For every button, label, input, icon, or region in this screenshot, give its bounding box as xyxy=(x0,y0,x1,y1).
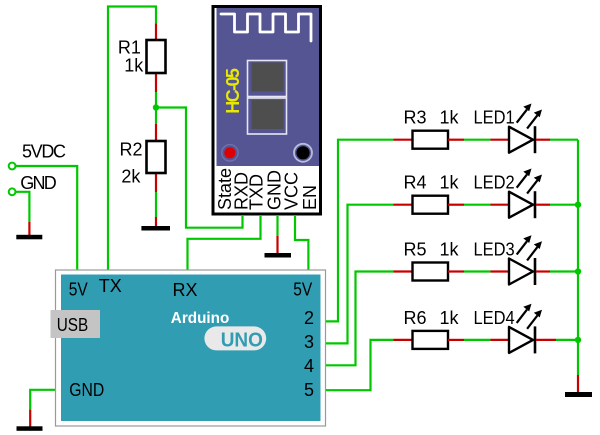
svg-text:LED2: LED2 xyxy=(474,173,515,193)
diode LED1 xyxy=(509,104,542,154)
wire HC-05 VCC to Arduino 5V right xyxy=(295,216,308,270)
ground symbol left input xyxy=(16,235,42,240)
wire green between R1 and R2 xyxy=(155,92,157,124)
wire 5VDC input to Arduino 5V left xyxy=(16,166,77,270)
svg-text:TXD: TXD xyxy=(247,174,267,210)
wire red lead LED4 anode xyxy=(491,339,510,341)
badge UNO pill xyxy=(204,326,266,350)
svg-text:3: 3 xyxy=(304,332,314,352)
svg-text:2k: 2k xyxy=(121,167,141,187)
wire red lead R3 left xyxy=(394,139,414,141)
ground symbol bottom right xyxy=(565,392,592,397)
wire red lead arduino ground xyxy=(29,410,31,427)
wire red lead LED3 anode xyxy=(491,270,510,272)
svg-text:LED1: LED1 xyxy=(474,108,515,128)
wire red lead R5 left xyxy=(394,270,414,272)
module HC-05 pcb xyxy=(217,8,320,166)
wire red lead LED1 cathode xyxy=(536,139,550,141)
wire pin5 to LED4 row xyxy=(326,340,394,390)
wire red lead R2 top xyxy=(155,124,157,141)
antenna trace xyxy=(221,14,311,41)
svg-text:1k: 1k xyxy=(440,108,460,128)
wire red lead ground below R2 xyxy=(155,217,157,227)
wire red lead R1 bottom xyxy=(155,73,157,92)
wire green LED1 to bus xyxy=(550,139,578,141)
ground symbol bottom left xyxy=(17,426,43,431)
wire divider junction to HC-05 RXD xyxy=(156,108,243,228)
wire red lead R1 top xyxy=(155,23,157,41)
wire red lead LED4 cathode xyxy=(536,339,556,341)
svg-text:2: 2 xyxy=(304,308,314,328)
resistor R2 xyxy=(147,141,166,173)
resistor R6 xyxy=(413,331,449,349)
svg-text:R5: R5 xyxy=(404,239,427,259)
wire red lead bus ground xyxy=(577,375,579,393)
wire red lead LED2 cathode xyxy=(536,204,550,206)
wire red lead R2 bottom xyxy=(155,173,157,192)
led indicator on module xyxy=(222,145,238,161)
wire red lead LED1 anode xyxy=(491,139,510,141)
resistor R4 xyxy=(413,196,449,214)
wire green R6 to LED4 xyxy=(464,339,491,341)
svg-text:Arduino: Arduino xyxy=(171,310,230,327)
wire HC-05 TXD to Arduino RX xyxy=(188,216,261,270)
diode LED4 xyxy=(509,304,542,354)
svg-text:R6: R6 xyxy=(404,308,427,328)
svg-text:LED4: LED4 xyxy=(474,308,515,328)
wire red lead R3 right xyxy=(448,139,464,141)
svg-text:TX: TX xyxy=(99,276,122,296)
node bus row4 xyxy=(575,337,581,343)
svg-text:1k: 1k xyxy=(440,173,460,193)
svg-text:LED3: LED3 xyxy=(474,239,515,259)
wire red lead R5 right xyxy=(448,270,464,272)
svg-text:R4: R4 xyxy=(404,173,427,193)
svg-text:1k: 1k xyxy=(440,239,460,259)
wire pin2 to LED1 row xyxy=(326,140,394,322)
svg-text:RX: RX xyxy=(173,280,198,300)
wire HC-05 GND down xyxy=(276,216,278,236)
wire red lead ground below module xyxy=(276,236,278,254)
ground symbol below R2 xyxy=(141,226,170,231)
svg-text:R3: R3 xyxy=(404,108,427,128)
wire green LED3 to bus xyxy=(550,270,578,272)
diode LED3 xyxy=(509,235,542,285)
wire green LED2 to bus xyxy=(550,204,578,206)
svg-text:GND: GND xyxy=(69,380,104,400)
svg-text:4: 4 xyxy=(304,356,314,376)
svg-text:EN: EN xyxy=(300,185,320,210)
node bus row2 xyxy=(575,202,581,208)
svg-text:5: 5 xyxy=(304,380,314,400)
node bus row3 xyxy=(575,268,581,274)
wire red lead R4 left xyxy=(394,204,414,206)
svg-text:5VDC: 5VDC xyxy=(22,142,66,162)
wire pin3 to LED2 row xyxy=(326,205,394,344)
wire green R5 to LED3 xyxy=(464,270,491,272)
wire GND input down xyxy=(16,192,30,222)
wire red lead R4 right xyxy=(448,204,464,206)
svg-text:GND: GND xyxy=(20,173,57,193)
svg-text:5V: 5V xyxy=(293,280,312,300)
wire red lead LED3 cathode xyxy=(536,270,550,272)
arduino pcb xyxy=(61,275,321,422)
usb connector xyxy=(51,310,101,338)
terminal 5VDC input xyxy=(9,163,16,170)
wire ground bus right xyxy=(577,140,579,375)
resistor R5 xyxy=(413,263,449,281)
wire red lead R6 right xyxy=(448,339,464,341)
ground symbol below HC-05 xyxy=(265,253,292,258)
svg-text:USB: USB xyxy=(57,315,88,335)
wire green R2 to ground xyxy=(155,192,157,217)
wire green R4 to LED2 xyxy=(464,204,491,206)
svg-text:1k: 1k xyxy=(440,308,460,328)
wire Arduino GND to ground xyxy=(30,390,55,410)
node junction R1-R2 divider xyxy=(153,104,159,110)
chip U1 on module xyxy=(248,61,287,97)
wire green LED4 to bus xyxy=(556,339,578,341)
wire red lead LED2 anode xyxy=(491,204,510,206)
svg-text:UNO: UNO xyxy=(221,330,263,352)
wire pin4 to LED3 row xyxy=(326,272,394,366)
wire red lead input ground xyxy=(28,222,30,235)
wire TX net from Arduino TX up and over to R1 top xyxy=(108,7,156,271)
button on module xyxy=(294,144,312,162)
svg-text:R2: R2 xyxy=(120,140,143,160)
terminal GND input xyxy=(9,188,16,195)
svg-text:1k: 1k xyxy=(124,55,144,75)
svg-text:VCC: VCC xyxy=(282,172,302,210)
resistor R1 xyxy=(147,40,166,73)
diode LED2 xyxy=(509,169,542,219)
wire green R3 to LED1 xyxy=(464,139,491,141)
wire red lead R6 left xyxy=(394,339,414,341)
module HC-05 frame xyxy=(213,7,321,215)
resistor R3 xyxy=(413,131,449,149)
svg-text:R1: R1 xyxy=(118,37,141,57)
chip U2 on module xyxy=(248,98,287,134)
svg-text:HC-05: HC-05 xyxy=(223,68,243,114)
arduino board U3 xyxy=(56,270,326,426)
svg-text:5V: 5V xyxy=(69,280,88,300)
